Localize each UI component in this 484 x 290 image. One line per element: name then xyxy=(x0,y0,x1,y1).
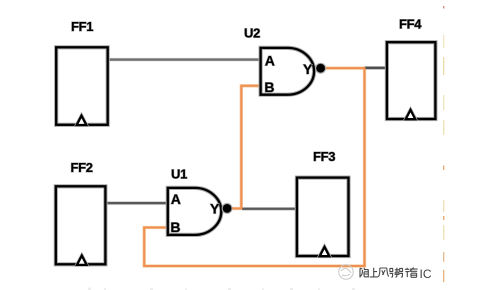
svg-text:FF1: FF1 xyxy=(71,19,93,34)
svg-text:U2: U2 xyxy=(244,26,260,41)
svg-text:Y: Y xyxy=(303,61,313,77)
svg-text:IC: IC xyxy=(420,267,432,281)
svg-text:Y: Y xyxy=(210,201,220,217)
svg-text:A: A xyxy=(171,191,181,207)
svg-text:U1: U1 xyxy=(171,167,187,182)
svg-text:FF4: FF4 xyxy=(399,17,422,32)
svg-text:FF2: FF2 xyxy=(71,160,93,175)
svg-text:FF3: FF3 xyxy=(313,149,335,164)
svg-text:B: B xyxy=(170,219,180,235)
svg-text:A: A xyxy=(265,53,275,69)
svg-text:B: B xyxy=(264,79,274,95)
